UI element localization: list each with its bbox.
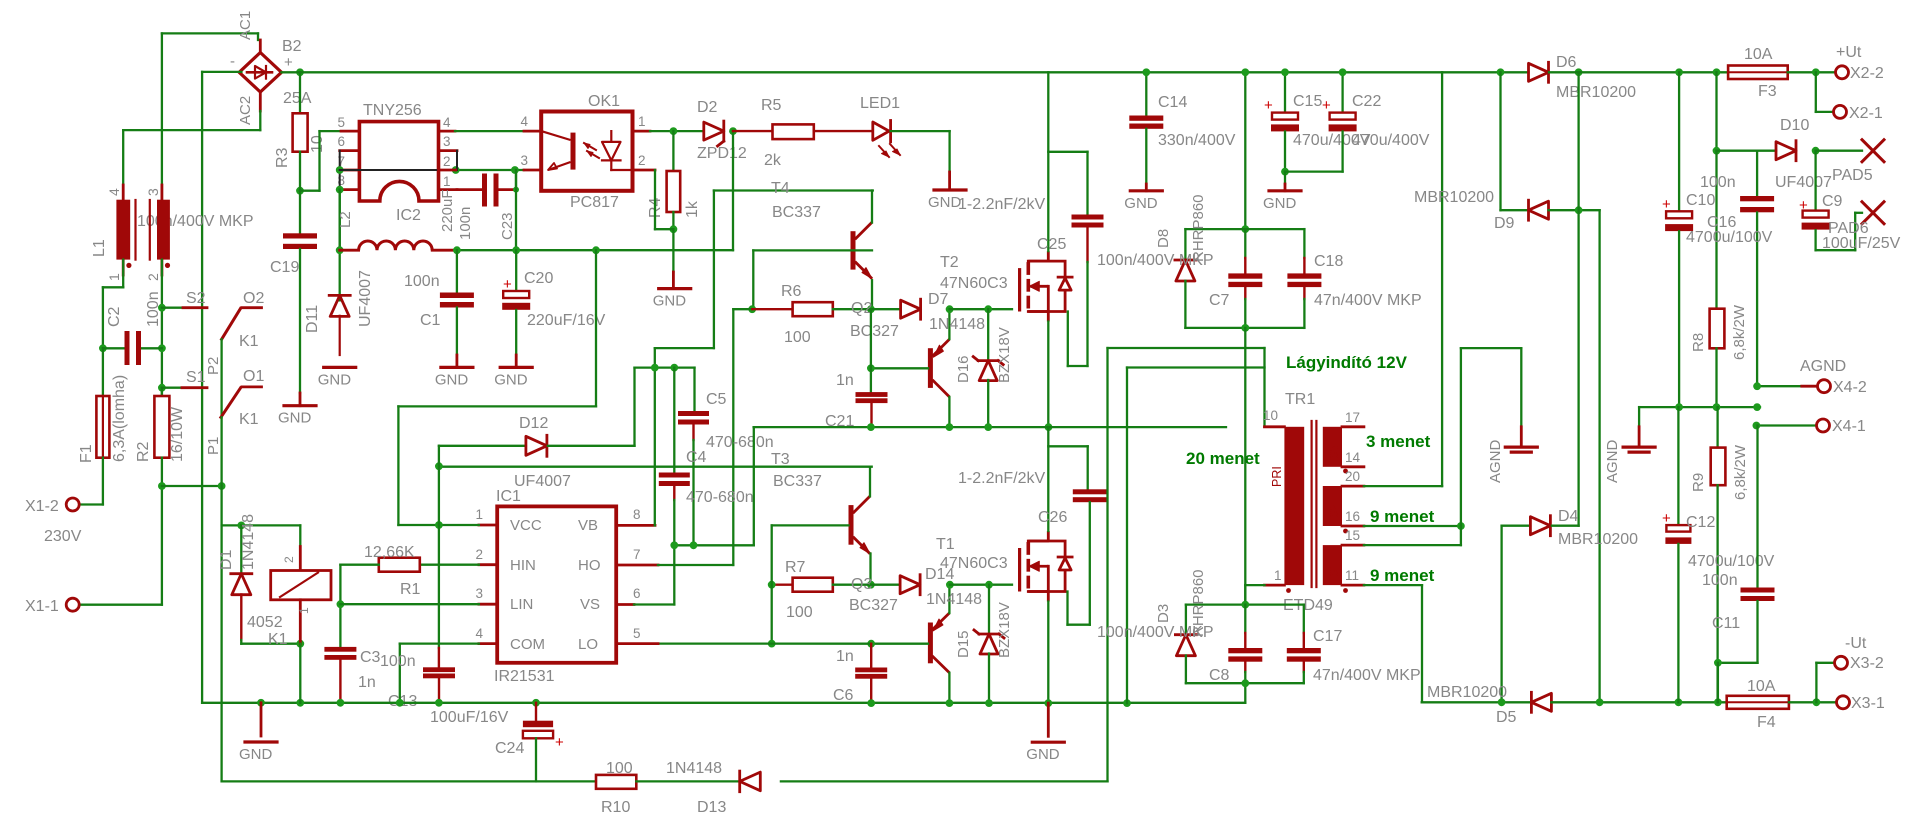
wire soft start 2 [1127,366,1265,368]
svg-text:6: 6 [633,586,641,601]
svg-text:OK1: OK1 [588,93,620,110]
svg-text:+: + [1662,510,1671,527]
svg-text:1n: 1n [358,674,376,691]
fuse F4 [1727,696,1789,709]
svg-text:VB: VB [578,517,598,534]
wire D4 cathode [1552,525,1579,527]
wire P1 down to bottom rail [220,417,222,781]
svg-text:Q2: Q2 [851,300,872,317]
svg-text:C2: C2 [106,306,123,327]
transformer TR1 S2 winding [1323,486,1342,526]
svg-text:GND: GND [278,410,312,427]
wire Q2 base [871,367,928,369]
node X2 tie [1812,68,1820,76]
svg-text:T1: T1 [936,536,955,553]
capacitor C1 [456,250,458,292]
svg-text:-Ut: -Ut [1845,635,1867,652]
node Q3 bus [946,699,954,707]
wire 12V rail [457,249,733,251]
wire pins 6-7-8 tie [339,151,341,190]
svg-text:6,8k/2W: 6,8k/2W [1731,304,1748,360]
wire T3 collector [869,467,871,497]
node rail C7 [1241,68,1249,76]
node D16 bottom [984,423,992,431]
svg-text:T4: T4 [771,180,790,197]
svg-text:R9: R9 [1690,473,1707,492]
IC1 pin3 [479,603,497,606]
OK1 pin1 [633,130,651,133]
svg-text:O2: O2 [243,290,264,307]
svg-text:VCC: VCC [510,517,542,534]
svg-text:1: 1 [475,507,483,522]
svg-text:10A: 10A [1747,678,1776,695]
wire C9 to PAD6 [1816,249,1856,251]
wire D6 anode column to D9 [1499,72,1501,210]
svg-text:1: 1 [1274,568,1282,583]
node D7 cathode [946,305,954,313]
svg-text:Lágyindító 12V: Lágyindító 12V [1286,353,1408,372]
wire down to TR1 primary [1244,328,1246,605]
svg-text:ZPD12: ZPD12 [697,145,747,162]
svg-text:17: 17 [1345,410,1360,425]
wire pin11 row 9 menet [1364,584,1422,586]
resistor R4 [672,131,674,171]
svg-text:-: - [230,53,235,70]
node Q2 collector rail [946,423,954,431]
node C8 top [1241,601,1249,609]
svg-text:+: + [1799,197,1808,214]
wire C4 top [673,368,675,473]
node D9/D4 tie [1575,206,1583,214]
svg-text:R10: R10 [601,799,630,813]
ground C1 [441,366,473,369]
svg-text:C14: C14 [1158,94,1187,111]
diode D6 MBR10200 [1501,71,1529,73]
connector X1-1 [66,598,79,611]
svg-text:X3-2: X3-2 [1850,655,1884,672]
diode D12 UF4007 [526,436,547,455]
IC1 pin2 [479,563,497,566]
node D6 cathode [1575,68,1583,76]
node L2 left [336,246,344,254]
wire OK1 pin1 to D2 [650,130,704,132]
IC1 pin7 [616,564,658,567]
ground LED1 [934,188,966,191]
svg-text:1: 1 [443,174,451,189]
svg-text:F4: F4 [1757,714,1776,731]
svg-text:6: 6 [337,134,345,149]
wire P2 [220,339,222,417]
svg-text:1: 1 [106,273,122,281]
svg-text:1k: 1k [684,200,701,218]
wire X3-2 [1815,663,1817,703]
node C21 top [867,364,875,372]
wire R2 bottom to X1-1 [161,458,163,605]
wire C20 branch down [515,170,517,250]
connector X2-1 [1834,105,1847,118]
wire T4 emitter down [871,280,873,309]
wire pin5 LO to C6 [658,642,871,644]
wire D5 anode to F4 [1551,701,1726,703]
node C12 bottom [1675,698,1683,706]
node T3 emitter / R7 right [867,581,875,589]
node pin2-pin3 tie [452,166,460,174]
svg-text:470u/400V: 470u/400V [1352,132,1430,149]
wire OK1 pin2 to R4 bottom [654,170,656,229]
node C8 bottom [1241,679,1249,687]
analog ground AGND 2 [1638,407,1640,427]
node R8 col top [1713,68,1721,76]
node relay/D1 bus [296,699,304,707]
svg-text:C9: C9 [1822,193,1843,210]
svg-text:D16: D16 [955,355,972,383]
diode D3 RHRP860 [1185,605,1187,635]
IC TNY256 U-box [359,122,438,201]
node C2 right [158,344,166,352]
svg-text:220uF/16V: 220uF/16V [527,312,606,329]
svg-text:C6: C6 [833,687,854,704]
OK1 pin2 [633,169,656,172]
switch contact S2 of K1 [162,307,183,309]
node D10 cathode [1812,147,1820,155]
svg-text:AC1: AC1 [237,11,254,40]
svg-text:14: 14 [1345,450,1361,465]
wire primary pin1 down [1245,584,1264,586]
svg-text:+: + [1662,196,1671,213]
wire D10 to PAD5 [1816,150,1862,152]
capacitor C17 [1303,605,1305,633]
svg-text:B2: B2 [282,38,302,55]
svg-text:4700u/100V: 4700u/100V [1686,229,1773,246]
capacitor C16 [1756,151,1758,196]
node C10 top [1675,68,1683,76]
svg-text:L1: L1 [91,239,108,257]
capacitor C10 [1678,72,1680,211]
svg-text:GND: GND [653,293,687,310]
svg-text:GND: GND [1263,195,1297,212]
svg-text:K1: K1 [268,631,288,648]
resistor R1 [379,558,420,572]
ground R4 [659,287,691,290]
svg-text:T2: T2 [940,254,959,271]
IC IC1 IR21531 [497,506,616,662]
fuse F1 [102,348,104,396]
node C7 top [1241,225,1249,233]
wire R8 column [1715,72,1717,150]
svg-text:1: 1 [638,114,646,129]
svg-text:R3: R3 [274,147,291,168]
inductor L2 [339,190,341,301]
node GND sym [257,699,265,707]
wire -rect column [1598,210,1600,702]
wire LED1 to GND [891,130,950,132]
resistor R2 [161,388,163,396]
svg-text:2k: 2k [764,152,782,169]
svg-text:BC327: BC327 [849,597,898,614]
wire T2 source to mid rail [1047,322,1049,428]
wire AGND bus [1639,406,1760,408]
wire R1 left column [339,565,341,647]
TNY pin4 [439,130,456,133]
node C6 bus [867,699,875,707]
resistor R9 [1716,407,1718,448]
svg-text:X4-2: X4-2 [1833,379,1867,396]
svg-text:BZX18V: BZX18V [996,327,1013,383]
wire X4-1 row [1756,424,1816,426]
node P1 [218,482,226,490]
capacitor C25 snubber [1048,151,1087,153]
svg-text:GND: GND [1124,195,1158,212]
zener D16 BZX18V [987,309,989,360]
resistor R6 [752,308,792,310]
svg-text:D8: D8 [1155,229,1172,248]
svg-text:+: + [503,276,512,293]
wire D8/C7/C18 bottom line [1185,327,1304,329]
svg-text:25A: 25A [283,90,312,107]
diode D10 UF4007 [1776,142,1796,160]
svg-text:C4: C4 [686,449,707,466]
node C16 col bus [1753,403,1761,411]
svg-text:F3: F3 [1758,83,1777,100]
wire T1 drain [1047,427,1049,531]
wire L1 pin1 to C2 [122,260,124,288]
wire AC1 top [162,32,258,34]
pad PAD6 [1862,202,1884,224]
capacitor C24 [535,703,537,721]
svg-text:8: 8 [633,507,641,522]
svg-text:16: 16 [1345,509,1360,524]
svg-text:470-680n: 470-680n [686,489,754,506]
optocoupler OK1 PC817 [541,112,632,191]
wire D12 cathode to VB net [548,445,635,447]
svg-text:1: 1 [297,607,311,614]
capacitor C14 [1145,72,1147,115]
svg-text:1N4148: 1N4148 [666,760,722,777]
wire HO pin7 [658,564,733,566]
wire D4 anode down [1500,526,1502,703]
node C4 bottom [670,541,678,549]
OK1 pin3 [524,169,541,172]
node C22 top [1339,68,1347,76]
svg-text:12,66K: 12,66K [364,544,415,561]
node D12 anode branch [435,462,443,470]
svg-text:R2: R2 [135,441,152,462]
svg-text:LO: LO [578,636,598,653]
node VB branch1 [651,364,659,372]
svg-text:4052: 4052 [247,614,283,631]
svg-text:K1: K1 [239,411,259,428]
svg-text:TNY256: TNY256 [363,102,422,119]
wire Q3 emitter [948,585,950,613]
wire center tap to AGND [1460,348,1462,545]
node C20 top [512,246,520,254]
TNY pin2 [439,169,456,172]
svg-text:D2: D2 [697,99,718,116]
svg-text:47N60C3: 47N60C3 [940,275,1008,292]
svg-text:4: 4 [520,114,528,129]
svg-text:D7: D7 [928,291,949,308]
capacitor C20 [515,250,517,291]
OK1 pin4 [524,130,541,133]
svg-text:T3: T3 [771,451,790,468]
transformer TR1 S1 winding [1323,545,1342,585]
svg-text:3: 3 [475,586,483,601]
wire X2-1 [1815,72,1817,112]
svg-text:R8: R8 [1690,333,1707,352]
node C15 bottom [1281,168,1289,176]
OK1 inner LED [610,131,612,142]
svg-text:AC2: AC2 [237,96,254,125]
svg-text:MBR10200: MBR10200 [1414,189,1494,206]
svg-text:R6: R6 [781,283,802,300]
svg-text:100n/400V MKP: 100n/400V MKP [1097,252,1214,269]
wire L1 pin2 down [161,260,163,396]
svg-text:PRI: PRI [1270,466,1284,487]
wire Q2 collector [948,397,950,427]
svg-text:HIN: HIN [510,557,536,574]
node VB branch2 [670,364,678,372]
wire D3/C8/C17 bottom line [1186,682,1304,684]
node D1 top [237,522,245,530]
TNY pin3 [439,149,458,152]
svg-text:BC337: BC337 [772,204,821,221]
svg-text:K1: K1 [239,333,259,350]
node -rect col bottom [1596,698,1604,706]
diode D2 ZPD12 [704,122,724,140]
node T1 source bus [1044,699,1052,707]
svg-text:5: 5 [633,626,641,641]
diode D14 1N4148 [871,584,900,586]
resistor R5 [733,130,773,132]
svg-text:PC817: PC817 [570,194,619,211]
svg-text:220uF: 220uF [439,189,456,232]
svg-text:C17: C17 [1313,628,1342,645]
wire R6 left to HO column [733,308,752,310]
svg-text:2: 2 [443,154,451,169]
Q3 symbol (PNP mirrored) [928,623,933,664]
IC1 pin1 [479,524,497,527]
wire main HV rail [282,71,1501,73]
svg-text:AGND: AGND [1800,358,1846,375]
svg-text:GND: GND [494,371,528,388]
wire F4 to X3-1 [1789,701,1836,703]
svg-text:X4-1: X4-1 [1832,418,1866,435]
node LO junction [768,640,776,648]
wire T2 drain [1047,72,1049,251]
svg-text:470-680n: 470-680n [706,434,774,451]
node C13 bus [435,699,443,707]
svg-text:7: 7 [633,547,641,562]
svg-text:D1: D1 [218,549,235,570]
node X4-1 row [1753,422,1761,430]
svg-text:6,3A(lomha): 6,3A(lomha) [111,375,128,462]
capacitor C9 [1814,151,1816,211]
TNY pin5 [341,130,359,133]
svg-text:8: 8 [337,173,345,188]
svg-text:2: 2 [282,556,296,563]
svg-text:3 menet: 3 menet [1366,432,1431,451]
capacitor C6 [870,644,872,668]
node R6 right [867,305,875,313]
ground C20 [500,366,532,369]
node S1 tap [158,384,166,392]
diode D7 1N4148 [871,308,901,310]
capacitor C15 [1284,72,1286,112]
IC1 pin6 [616,603,634,606]
capacitor C23 [457,188,482,191]
svg-text:C24: C24 [495,740,524,757]
svg-text:4700u/100V: 4700u/100V [1688,553,1775,570]
svg-text:100n: 100n [1702,572,1738,589]
node C11 bottom [1714,659,1722,667]
svg-text:10A: 10A [1744,46,1773,63]
wire C7 column top [1244,72,1246,229]
TNY pin1 [439,188,458,191]
node OK1 pin3 branch [511,166,519,174]
TNY pin6 [340,149,360,152]
svg-text:4: 4 [475,626,483,641]
wire VCC net [398,524,479,526]
node B2+ junction [296,68,304,76]
svg-text:VS: VS [580,596,600,613]
node D2 cathode [729,127,737,135]
node R3 bottom [296,187,304,195]
ground main [260,703,263,736]
wire up from bus to soft-start 2 [1126,368,1128,704]
node C21 bottom [867,423,875,431]
wire D6 cathode rail to F3 [1549,71,1728,73]
node T2 gate / D16 [984,305,992,313]
resistor R8 [1715,151,1717,309]
node VCC/D12 [435,521,443,529]
IC1 pin4 [479,642,497,645]
svg-text:1n: 1n [836,372,854,389]
svg-text:D3: D3 [1155,604,1172,623]
svg-text:MBR10200: MBR10200 [1427,684,1507,701]
svg-text:100n: 100n [457,207,474,240]
svg-text:100uF/16V: 100uF/16V [430,709,509,726]
svg-text:100: 100 [786,604,813,621]
zener D15 BZX18V [988,585,990,634]
svg-text:D13: D13 [697,799,726,813]
ground C15 [1269,189,1301,192]
svg-text:D11: D11 [304,305,321,333]
svg-text:GND: GND [1026,746,1060,763]
svg-text:C18: C18 [1314,253,1343,270]
node X4-2 [1753,382,1761,390]
svg-text:D6: D6 [1556,54,1577,71]
node D6 anode [1497,68,1505,76]
TNY pin8 [340,188,360,191]
node X3 tie [1813,698,1821,706]
wire pin3 down [456,151,458,170]
svg-text:100n: 100n [404,273,440,290]
svg-text:100n: 100n [145,291,162,327]
svg-text:5: 5 [337,115,345,130]
svg-text:P1: P1 [205,437,222,455]
svg-text:C20: C20 [524,270,553,287]
svg-text:S1: S1 [186,369,206,386]
OK1 light arrows [584,143,596,150]
wire VB line from T4 collector [714,189,873,191]
svg-text:S2: S2 [1329,504,1341,518]
node S2 tap [158,304,166,312]
svg-text:D12: D12 [519,415,548,432]
bridge rectifier B2 [239,53,281,93]
capacitor C11 [1756,426,1758,588]
connector X1-2 [66,498,79,511]
svg-text:16/10W: 16/10W [169,406,186,462]
